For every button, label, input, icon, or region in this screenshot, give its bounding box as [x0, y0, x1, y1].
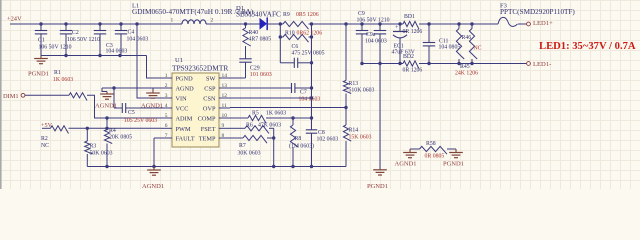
resistor R6 [245, 123, 281, 134]
svg-text:TPS923652DMTR: TPS923652DMTR [172, 64, 228, 73]
svg-text:106 50V 1210: 106 50V 1210 [39, 45, 72, 51]
svg-text:R13: R13 [349, 81, 359, 87]
ground AGND1 mid [141, 88, 163, 110]
wire top rail mid [207, 23, 283, 25]
inductor L1 [132, 3, 254, 25]
capacitor C9 [356, 11, 390, 64]
svg-text:LED1-: LED1- [533, 61, 551, 68]
wire R6R7 junction [272, 128, 275, 168]
svg-text:R1: R1 [54, 70, 61, 76]
resistor R5 [248, 111, 286, 124]
wire SW pin14 [230, 22, 247, 78]
capacitor C3 [94, 22, 128, 55]
svg-text:NC: NC [474, 46, 482, 52]
svg-text:BD2: BD2 [403, 54, 414, 60]
svg-text:1K 0603: 1K 0603 [266, 111, 286, 117]
wire CSP pin13 [230, 87, 292, 89]
svg-text:PGND1: PGND1 [28, 71, 49, 78]
svg-text:0R 1206: 0R 1206 [403, 29, 423, 35]
wire COMP node [266, 116, 312, 119]
svg-text:7: 7 [165, 133, 168, 139]
wire TEMP pin8 [230, 137, 243, 139]
svg-text:LED1: 35~37V / 0.7A: LED1: 35~37V / 0.7A [539, 41, 636, 52]
svg-text:R10: R10 [285, 31, 295, 37]
ground AGND1 left [95, 88, 117, 110]
capacitor C9a [365, 22, 387, 65]
svg-text:1K 0603: 1K 0603 [53, 77, 73, 83]
wire bottom rail [87, 165, 346, 168]
capacitor C2 [60, 22, 100, 55]
wire DIM to ADIM [87, 95, 161, 119]
ground PGND1 input [28, 56, 49, 78]
svg-text:0R 0805: 0R 0805 [425, 154, 445, 160]
svg-text:9: 9 [222, 123, 225, 129]
resistor R58 [410, 141, 456, 160]
svg-text:VIN: VIN [176, 96, 188, 103]
svg-text:FAULT: FAULT [176, 136, 195, 143]
resistor R4 [104, 128, 132, 167]
svg-text:3: 3 [165, 93, 168, 99]
svg-text:0R 1206: 0R 1206 [403, 68, 423, 74]
svg-text:102 0603: 102 0603 [317, 137, 339, 143]
port LED1+ [527, 20, 554, 27]
svg-text:(1M 0603): (1M 0603) [289, 143, 314, 150]
svg-text:SBM340VAFC: SBM340VAFC [236, 10, 281, 19]
svg-text:4: 4 [165, 103, 168, 109]
svg-text:R45: R45 [460, 64, 470, 70]
resistor R45 [455, 22, 478, 76]
svg-text:+24V: +24V [7, 15, 22, 22]
svg-text:SW: SW [206, 76, 216, 83]
wire FSET pin9 [230, 127, 245, 129]
port LED1- [527, 61, 552, 68]
svg-text:PGND1: PGND1 [367, 183, 388, 189]
svg-text:0R62 1206: 0R62 1206 [297, 31, 323, 37]
fuse F3 [498, 3, 575, 27]
svg-text:R5: R5 [252, 111, 259, 117]
capacitor EC1 [392, 22, 416, 65]
svg-text:R14: R14 [349, 128, 359, 134]
wire cap ground rail [41, 54, 147, 57]
svg-text:R7: R7 [239, 143, 246, 149]
resistor R9 [283, 12, 319, 29]
wire AGND pin2 [102, 86, 161, 89]
wire FAULT pin7 [152, 138, 161, 168]
svg-text:R8: R8 [295, 136, 302, 142]
svg-text:106 50V 1210: 106 50V 1210 [67, 37, 100, 43]
svg-text:C1: C1 [38, 38, 45, 44]
svg-text:475 25V 0805: 475 25V 0805 [292, 51, 325, 57]
wire PWM pin6 [69, 127, 162, 130]
label LED output spec [539, 41, 636, 52]
svg-text:CSP: CSP [204, 86, 216, 93]
svg-text:R2: R2 [41, 136, 48, 142]
svg-text:101 0603: 101 0603 [250, 72, 272, 78]
svg-text:NC: NC [41, 143, 49, 149]
svg-text:11: 11 [222, 103, 228, 109]
wire VIN pin3 [135, 22, 161, 98]
svg-text:PGND: PGND [176, 76, 194, 83]
svg-text:106 50V 1210: 106 50V 1210 [357, 18, 390, 24]
wire COMP pin10 [230, 117, 248, 119]
svg-text:LED1+: LED1+ [533, 20, 553, 27]
svg-text:R46: R46 [462, 35, 472, 41]
svg-text:PPTC(SMD2920P110TF): PPTC(SMD2920P110TF) [500, 8, 575, 16]
svg-text:24K 1206: 24K 1206 [455, 71, 478, 77]
resistor R10 [279, 22, 323, 42]
ground AGND1 tie [395, 149, 417, 168]
svg-text:50K 0603: 50K 0603 [90, 151, 113, 157]
svg-text:8: 8 [222, 133, 225, 139]
svg-text:2: 2 [165, 83, 168, 89]
svg-text:12: 12 [222, 93, 228, 99]
svg-text:510K 0603: 510K 0603 [349, 88, 375, 94]
wire top rail right [309, 23, 527, 25]
svg-text:AGND1: AGND1 [395, 161, 417, 168]
svg-text:C2: C2 [72, 30, 79, 36]
svg-text:1: 1 [165, 73, 168, 79]
svg-text:104 0603: 104 0603 [106, 49, 128, 55]
svg-text:0R5 1206: 0R5 1206 [296, 12, 319, 18]
resistor R40 [243, 24, 271, 46]
capacitor C7 [292, 83, 321, 103]
wire OVP pin11 [230, 106, 348, 109]
resistor R46 [462, 22, 482, 65]
ground PGND1 output [367, 170, 388, 190]
svg-text:4R7 0805: 4R7 0805 [249, 37, 272, 43]
port DIM1 [3, 93, 69, 100]
resistor R1 [53, 70, 87, 101]
ground PGND1 tie [443, 149, 464, 168]
resistor BD2 [403, 54, 423, 74]
svg-text:104 0603: 104 0603 [299, 97, 321, 103]
svg-text:14: 14 [222, 73, 228, 79]
resistor R8 [289, 118, 314, 168]
svg-text:C4: C4 [128, 30, 135, 36]
svg-text:COMP: COMP [198, 116, 216, 123]
resistor BD1 [403, 14, 423, 35]
resistor R14 [343, 94, 371, 167]
svg-text:AGND: AGND [176, 86, 195, 93]
capacitor C5 [114, 88, 161, 124]
resistor R7 [238, 135, 274, 156]
svg-text:PWM: PWM [176, 126, 191, 133]
wire PGND drop [379, 64, 381, 170]
svg-text:30K 0603: 30K 0603 [238, 151, 261, 157]
capacitor C11 [423, 22, 461, 65]
wire PGND pin1 [147, 56, 162, 79]
svg-text:2: 2 [211, 18, 214, 24]
svg-text:R58: R58 [426, 141, 436, 147]
svg-text:OVP: OVP [203, 106, 216, 113]
capacitor C29 [239, 46, 272, 78]
svg-text:C29: C29 [250, 66, 260, 72]
svg-text:C6: C6 [292, 44, 299, 50]
capacitor C8 [306, 116, 339, 168]
svg-text:5: 5 [165, 113, 168, 119]
svg-text:CSN: CSN [203, 96, 216, 103]
svg-text:R9: R9 [283, 12, 290, 18]
capacitor C4 [115, 22, 149, 55]
svg-text:C5: C5 [128, 110, 135, 116]
svg-text:20K 0805: 20K 0805 [109, 135, 132, 141]
svg-text:15K 0603: 15K 0603 [349, 135, 372, 141]
power port +24V [7, 15, 172, 24]
svg-text:ADIM: ADIM [176, 116, 193, 123]
svg-text:R4: R4 [109, 128, 116, 134]
svg-text:C9a: C9a [366, 32, 376, 38]
svg-text:PGND1: PGND1 [443, 161, 464, 168]
resistor R3 [85, 128, 113, 166]
svg-text:104 0603: 104 0603 [365, 39, 387, 45]
svg-text:R6: R6 [246, 123, 253, 129]
wire output gnd rail [360, 62, 526, 65]
capacitor C6 [280, 37, 324, 118]
svg-text:TEMP: TEMP [199, 136, 216, 143]
resistor R13 [343, 22, 374, 93]
svg-text:BD1: BD1 [404, 14, 415, 20]
svg-text:VCC: VCC [176, 106, 189, 113]
svg-text:C9: C9 [358, 11, 365, 17]
svg-text:R40: R40 [249, 30, 259, 36]
svg-text:6: 6 [165, 123, 168, 129]
svg-text:13: 13 [222, 83, 228, 89]
power port +5V [41, 122, 53, 129]
resistor R2 [41, 126, 69, 149]
svg-text:47K 0603: 47K 0603 [258, 123, 281, 129]
wire CSN pin12 [230, 96, 313, 99]
svg-text:AGND1: AGND1 [142, 183, 164, 189]
op-amp U1 TPS923652DMTR [161, 57, 230, 147]
svg-text:R3: R3 [90, 144, 97, 150]
wire ADIM junction drop [105, 118, 108, 130]
svg-text:C8: C8 [318, 130, 325, 136]
svg-text:1: 1 [171, 18, 174, 24]
ground AGND1 bottom [142, 167, 164, 191]
svg-text:DIM1: DIM1 [3, 93, 19, 100]
capacitor C1 [35, 22, 72, 55]
svg-text:FSET: FSET [201, 126, 216, 133]
svg-text:105 25V 0603: 105 25V 0603 [124, 118, 157, 124]
svg-text:C7: C7 [300, 90, 307, 96]
diode D1 [236, 5, 281, 30]
svg-text:104 0805: 104 0805 [439, 45, 461, 51]
svg-text:10: 10 [222, 113, 228, 119]
